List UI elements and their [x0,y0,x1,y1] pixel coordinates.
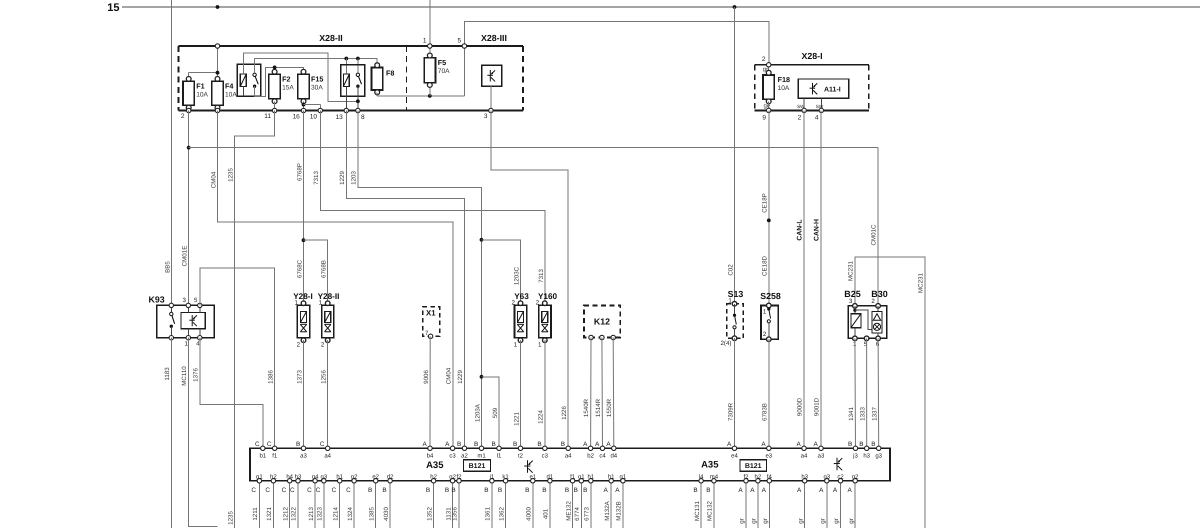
svg-text:g3: g3 [875,453,882,460]
svg-text:MC132: MC132 [707,500,714,521]
svg-text:1229: 1229 [457,370,464,384]
svg-text:1212: 1212 [282,507,289,521]
fuse F4 10A [212,77,238,111]
svg-text:B: B [492,441,496,448]
svg-text:X1: X1 [426,309,436,318]
svg-text:1: 1 [538,341,542,348]
svg-text:1: 1 [294,300,298,307]
wire 1341 B25 to A35 j3 [848,338,856,448]
wire MC110 K93 pin1 [181,338,217,527]
A35 bottom pin B m4 [706,473,718,494]
svg-text:10A: 10A [196,91,208,98]
svg-text:B: B [498,487,502,494]
svg-text:9001D: 9001D [814,397,821,416]
svg-text:1540R: 1540R [583,398,590,417]
svg-text:S258: S258 [760,291,781,301]
svg-text:2: 2 [181,113,185,120]
A35 bottom pin B h2 [426,473,438,494]
A35 bottom pin C g3 [316,473,328,494]
A35 bottom pin C h1 [332,473,344,494]
wire 4030 from A35 pin d2 [383,481,390,528]
svg-text:1333: 1333 [860,407,867,421]
svg-text:6774: 6774 [574,507,581,521]
svg-text:b2: b2 [587,453,594,460]
svg-text:1214: 1214 [332,507,339,521]
svg-text:4000: 4000 [526,507,533,521]
A35 top pin A c3 [445,441,456,460]
wire CAN-L [796,110,804,448]
A35 top pin A e3 [761,441,772,460]
X28-II/III bottom pin 13 [336,108,349,121]
A35 top pin B m1 [474,441,486,460]
svg-text:l1: l1 [497,453,502,460]
control unit A35 box [250,448,890,481]
A35 bottom pin B f2 [451,473,462,494]
svg-text:1352: 1352 [426,507,433,521]
wire X28-II pin 2 feed to F1/F4 [189,46,220,79]
A35 top pin A d4 [606,441,617,460]
wire gr from A35 pin h3 [797,481,804,528]
svg-text:B: B [513,441,517,448]
svg-text:MC231: MC231 [848,260,855,281]
svg-text:1: 1 [514,341,518,348]
wire MC131 from A35 pin l4 [694,481,701,528]
svg-text:A: A [615,487,620,494]
svg-text:gr: gr [739,518,746,524]
svg-text:1373: 1373 [296,370,303,384]
svg-text:A: A [814,441,819,448]
svg-text:C: C [251,487,256,494]
svg-text:c3: c3 [449,453,456,460]
A35 bottom pin B j1 [484,473,495,494]
wire CM01E [182,111,191,306]
wire battery feed to X28-II pin 1 (F5) [429,0,431,46]
svg-text:A35: A35 [701,460,719,471]
A35 top pin C f1 [267,441,278,460]
wire 1550R K12 to A35 d4 [606,338,614,449]
A35 top pin A b2 [583,441,594,460]
wire MC132 from A35 pin m4 [707,481,714,528]
A35 top pin A a4 [797,441,808,460]
svg-text:M132B: M132B [616,501,623,521]
svg-text:B: B [296,441,300,448]
svg-text:e3: e3 [765,453,772,460]
svg-text:509: 509 [492,407,499,418]
A35 bottom pin C h4 [282,473,294,494]
svg-text:2: 2 [511,300,515,307]
A35 bottom pin A h1 [604,473,616,494]
A35 bottom pin A f2 [738,473,749,494]
svg-text:3: 3 [182,297,186,304]
svg-text:1362: 1362 [498,507,505,521]
fuse F5 70A [424,46,450,87]
svg-text:Y63: Y63 [514,292,529,301]
svg-text:C: C [290,487,295,494]
node terminal 15 rail [107,2,1200,14]
svg-text:CM01E: CM01E [182,246,189,267]
svg-text:9: 9 [762,114,766,121]
svg-text:a4: a4 [324,453,331,460]
svg-text:7313: 7313 [538,269,545,283]
label B121 right [740,460,767,472]
svg-text:A: A [761,441,766,448]
wire 1324 from A35 pin g2 [347,481,354,528]
svg-text:gr: gr [848,518,855,524]
connector box X28-II / X28-III frame [179,33,524,111]
svg-text:A: A [595,441,600,448]
svg-text:C: C [320,441,325,448]
svg-text:F5: F5 [438,58,446,67]
svg-text:2: 2 [762,56,766,63]
svg-text:A: A [606,441,611,448]
A35 top pin A a3 [814,441,825,460]
svg-text:6783B: 6783B [762,403,769,421]
svg-text:A: A [738,487,743,494]
svg-text:F18: F18 [778,75,790,84]
svg-text:A: A [750,487,755,494]
svg-text:1221: 1221 [513,412,520,426]
sensor B25 / B30 [844,289,888,348]
svg-text:gr: gr [833,518,840,524]
svg-text:2: 2 [763,331,767,338]
svg-text:A: A [423,441,428,448]
svg-text:j3: j3 [852,453,858,460]
wire 1212 from A35 pin h4 [282,481,289,528]
wire 1221 Y63 to A35 t2 [513,340,520,448]
wire 1540R K12 to A35 b2 [583,338,591,449]
switch S258 [760,291,781,342]
svg-text:A: A [762,487,767,494]
svg-text:7309R: 7309R [727,402,734,421]
A35 bottom pin B l4 [693,473,704,494]
svg-text:a3: a3 [300,453,307,460]
svg-text:15: 15 [107,2,119,14]
A35 top pin B a4 [561,441,572,460]
A35 top pin C b1 [255,441,267,460]
svg-text:Y160: Y160 [538,292,558,301]
svg-text:BB5: BB5 [164,261,171,273]
wire relay1 switch to relay2 and F8 (line B) [255,57,378,75]
svg-text:1: 1 [423,38,427,45]
svg-text:401: 401 [543,508,550,519]
svg-text:5: 5 [194,297,198,304]
wire X28-III pin 5 to X28-I pin 2 [464,21,769,64]
X28-II/III bottom pin 16 [293,108,306,120]
fuse F8 [372,63,395,96]
svg-text:10A: 10A [225,91,237,98]
wire 1203 / 1203A [351,111,484,449]
svg-text:C: C [346,487,351,494]
svg-text:K12: K12 [594,317,610,327]
wire CM04 [210,111,452,449]
svg-text:1321: 1321 [266,507,273,521]
wire 509 branch [482,377,500,449]
svg-text:F1: F1 [196,81,204,90]
svg-text:2: 2 [321,341,325,348]
svg-text:A: A [797,487,802,494]
svg-text:A: A [604,487,609,494]
svg-text:A: A [445,441,450,448]
svg-text:gr: gr [751,518,758,524]
wire M132B from A35 pin g1 [616,481,623,528]
svg-text:1356: 1356 [452,507,459,521]
wire 1211 from A35 pin g1 [252,481,259,528]
svg-text:7313: 7313 [313,171,320,185]
svg-text:b4: b4 [427,453,434,460]
switch S13 [720,289,743,347]
svg-text:C: C [307,487,312,494]
wire 6773 from A35 pin h1 [584,481,591,528]
wire 7309R S13 to A35 e4 [727,338,734,448]
A35 bottom pin B k1 [498,473,509,494]
wire gr from A35 pin f4 [762,481,769,528]
svg-text:B: B [484,487,488,494]
svg-text:B: B [474,441,478,448]
wire 1373 Y28-I to A35 a3 [296,340,303,448]
wire 1352 from A35 pin h2 [426,481,433,528]
label B121 left [464,460,491,472]
svg-text:1341: 1341 [848,407,855,421]
wire 6774 from A35 pin g1 [574,481,581,528]
svg-text:B121: B121 [745,463,762,470]
wire CE18P / CE18D to S258 [762,110,771,305]
svg-text:1203A: 1203A [474,403,481,422]
wire 1333 B25 to A35 h3 [860,338,867,448]
svg-text:a2: a2 [461,453,468,460]
svg-text:B: B [706,487,710,494]
svg-text:m1: m1 [477,453,486,460]
wire gr from A35 pin c2 [833,481,840,528]
svg-text:MC131: MC131 [694,500,701,521]
wire 4000 from A35 pin e1 [526,481,533,528]
wire 1235 [227,111,274,528]
svg-text:B: B [426,487,430,494]
A35 bottom pin B e2 [368,473,380,494]
svg-text:5: 5 [864,341,868,348]
svg-text:10: 10 [310,114,318,121]
svg-text:1235: 1235 [227,168,234,182]
svg-text:1324: 1324 [347,507,354,521]
svg-text:1361: 1361 [485,507,492,521]
valve Y63 [511,292,529,349]
svg-text:f1: f1 [272,453,278,460]
X28-II/III bottom pin 10 [310,108,323,120]
X28-I pins [762,63,823,122]
svg-text:C: C [255,441,260,448]
svg-text:CM04: CM04 [210,171,217,188]
A35 bottom pin A g2 [848,473,860,494]
wire BB5 [164,0,171,305]
wire ME132 from A35 pin f1 [565,481,572,528]
A35 bottom pin A g3 [819,473,831,494]
valve Y28-I [293,292,313,349]
svg-text:B: B [368,487,372,494]
svg-text:B: B [457,441,461,448]
A35 bottom pin B g1 [574,473,586,494]
wire 1226 from X28-III pin 3 [491,111,568,449]
A35 internal symbol left [524,460,532,473]
relay 2 in X28-II [341,65,365,111]
fuse F1 10A [183,77,209,111]
connector box X28-I frame [755,51,869,110]
svg-text:6773: 6773 [584,507,591,521]
X28-II/III bottom pin 3 [484,108,493,120]
svg-text:1: 1 [319,300,323,307]
A35 top pin B j3 [848,441,858,460]
svg-text:1229: 1229 [339,171,346,185]
svg-text:1322: 1322 [291,507,298,521]
svg-text:1385: 1385 [368,507,375,521]
svg-text:MC110: MC110 [181,366,188,386]
svg-text:2: 2 [798,114,802,121]
A35 top pin B h3 [859,441,870,460]
svg-text:CAN-H: CAN-H [813,219,820,241]
wire M132A from A35 pin h1 [604,481,611,528]
A35 bottom pin A c2 [833,473,844,494]
svg-text:1235: 1235 [228,511,235,525]
svg-text:3: 3 [484,113,488,120]
wire relay1 output to F2/F15 [255,66,304,97]
svg-text:1256: 1256 [321,370,328,384]
svg-text:1183: 1183 [164,367,171,381]
A35 bottom pin C h2 [265,473,277,494]
relay K12 [584,306,620,340]
svg-text:1376: 1376 [193,368,200,382]
wire 1131 from A35 pin g2 [445,481,452,528]
svg-text:8: 8 [361,114,365,121]
A35 top pin B a3 [296,441,307,460]
svg-text:gr: gr [820,518,827,524]
svg-text:F2: F2 [282,74,290,83]
wire 401 from A35 pin d1 [543,481,550,528]
wire 6783B S258 to A35 e3 [762,339,769,448]
A35 bottom pin A f4 [762,473,773,494]
relay K93 [149,295,215,348]
valve Y28-II [318,292,340,349]
svg-text:B: B [565,487,569,494]
A35 internal symbol right [834,458,842,471]
sensor in X28-III [482,65,502,110]
wire 1322 from A35 pin h3 [291,481,298,528]
wire CM01C rail [189,148,878,306]
wire F8/F5 bottoms to pin 5 [377,46,464,98]
svg-text:B: B [525,487,529,494]
wire 1337 B30 to A35 g3 [871,338,878,448]
wire gr from A35 pin f2 [739,481,746,528]
svg-text:2: 2 [536,300,540,307]
X28-II/III bottom pin [215,108,219,112]
A35 top pin A e4 [727,441,738,460]
svg-text:10A: 10A [778,85,790,92]
A35 bottom pin B f1 [565,473,576,494]
A35 bottom pin C g4 [307,473,319,494]
svg-text:t2: t2 [518,453,524,460]
svg-text:A: A [727,441,732,448]
svg-text:A: A [583,441,588,448]
svg-text:CM01C: CM01C [871,224,878,246]
svg-text:K93: K93 [149,295,165,305]
wire 1386 K93 pin5 to A35 f1 [200,268,275,448]
svg-text:B: B [848,441,852,448]
X28-II/III top pin [215,44,219,48]
svg-text:B: B [445,487,449,494]
svg-text:1213: 1213 [308,507,315,521]
svg-text:C02: C02 [727,264,734,276]
wire gr from A35 pin g3 [820,481,827,528]
svg-text:2(4): 2(4) [720,340,731,347]
svg-text:C: C [316,487,321,494]
fuse F15 30A [298,69,324,110]
wire 1385 from A35 pin e2 [368,481,375,528]
A35 top pin B g3 [871,441,882,460]
svg-text:B: B [451,487,455,494]
svg-text:B121: B121 [469,463,486,470]
svg-text:h3: h3 [863,453,870,460]
X28-II/III bottom pin 11 [264,108,277,120]
svg-text:9000D: 9000D [797,397,804,416]
A35 bottom pin B g2 [445,473,457,494]
svg-text:2: 2 [297,341,301,348]
A35 top pin A b4 [423,441,434,460]
svg-text:1226: 1226 [561,406,568,420]
svg-text:3: 3 [849,298,853,305]
svg-text:6768P: 6768P [296,163,303,181]
X28-II/III bottom pin 8 [356,108,365,121]
svg-text:1203: 1203 [351,171,358,185]
svg-text:1514R: 1514R [595,398,602,417]
wire 7313 [313,111,545,304]
svg-text:4: 4 [815,114,819,121]
A35 bottom pin B d1 [542,473,554,494]
svg-text:11: 11 [264,113,271,120]
A35 top pin C a4 [320,441,332,460]
svg-text:F8: F8 [386,69,394,78]
svg-text:A: A [848,487,853,494]
svg-text:1: 1 [763,308,767,315]
svg-text:B: B [871,441,875,448]
svg-text:CM04: CM04 [445,367,452,384]
relay 1 in X28-II [237,64,260,96]
A35 bottom pin C g2 [346,473,358,494]
wire 1224 Y160 to A35 c3 [538,340,545,448]
valve Y160 [536,292,558,349]
svg-text:A: A [797,441,802,448]
A35 bottom pin B e1 [525,473,537,494]
svg-text:9006: 9006 [423,370,430,384]
wire relay1 coil to relay2 switch (line A) [243,53,358,101]
A35 bottom pin A h2 [750,473,762,494]
svg-text:b1: b1 [259,453,266,460]
svg-text:gr: gr [762,518,769,524]
svg-text:CAN-L: CAN-L [796,219,803,240]
wire gr from A35 pin h2 [751,481,758,528]
svg-text:F15: F15 [311,74,323,83]
svg-text:gr: gr [797,518,804,524]
svg-text:B: B [382,487,386,494]
svg-text:1337: 1337 [871,407,878,421]
component A11-I [797,79,849,110]
svg-text:c3: c3 [542,453,549,460]
A35 top pin B c3 [537,441,548,460]
A35 bottom pin B d2 [382,473,394,494]
wire CAN-H [813,110,821,448]
wire 9006 X1 pin7 to A35 b4 [423,336,430,448]
svg-text:MC231: MC231 [918,272,925,293]
wire 1321 from A35 pin h2 [266,481,273,528]
wire 1203C branch to Y63 [482,240,521,303]
A35 top pin B t2 [513,441,524,460]
wire 1229 [339,111,464,449]
